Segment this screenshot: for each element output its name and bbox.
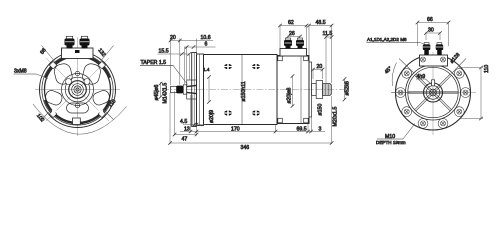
rim arc gap left [52,107,58,113]
rim tab SW [49,110,56,117]
svg-text:47: 47 [182,137,188,143]
ext line 13 left down [190,95,192,133]
body seam line [241,55,243,125]
middle view centerline [162,89,349,91]
left view vent kidney WSW [44,89,64,107]
left view lower dimension arc [33,104,127,134]
drive bracket tab bottom-left [278,118,283,123]
left view terminal bolt right cap [81,36,87,38]
svg-text:86: 86 [39,47,47,55]
ext 30 left [425,32,427,40]
ext 66 right [448,22,450,47]
middle terminal bolt right body [298,45,303,49]
svg-text:DEPTH 19mm: DEPTH 19mm [376,140,406,145]
dimension 110 leader lower-right [103,109,114,120]
dimension 132 leader upper-right [99,46,114,64]
ext line bracket right down [307,124,309,133]
right terminal block [420,55,448,66]
svg-text:3: 3 [319,127,322,133]
drive bracket tab bottom-right [304,118,309,123]
TAPER leader [173,65,188,84]
motor body rectangle [204,55,278,125]
ext line washer up [184,47,186,85]
shaft washer band [183,85,186,94]
bolt hole SW234 [402,107,412,117]
svg-text:346: 346 [241,145,250,151]
svg-text:A1,1D1,A2,2D2 M8: A1,1D1,A2,2D2 M8 [367,37,407,42]
tapered shaft top edge [187,85,197,86]
drive bracket inner line [300,56,302,124]
body screw symbol top-left [224,63,232,70]
left view centerline vertical [77,37,79,136]
ext line shaft end up [331,25,333,84]
ext 66 left [417,22,419,47]
ext line taper start up [186,47,188,85]
right terminal bolt left body [424,50,429,55]
body screw symbol top-right [252,63,260,70]
right terminal bolt right head [436,45,444,51]
svg-text:132: 132 [96,48,106,59]
dim line 6 row [185,46,216,48]
shaft nut (dark) [176,86,183,94]
left view hub circle r12.5 [65,77,90,102]
ext 30 right [439,32,441,40]
dim line 20 left [170,40,214,42]
right view flange inner circle [408,67,458,117]
bracket extra vertical line 2 [199,55,201,126]
rim arc gap right [98,107,104,113]
dim line 66 [418,22,449,24]
dim line 13-170-69.5-3 row [180,131,325,133]
left view vent kidney NNW notch [66,79,72,85]
left view vent kidney ESE [91,89,111,107]
right view outer circle [396,55,471,130]
left view bottom heavy rim arc [45,100,110,123]
rim tab SE [98,110,105,117]
dimension 86 leader upper-left [42,46,57,64]
ext line 47 left down [174,91,176,136]
right terminal bolt right cap [437,43,442,45]
ext line bracket face down [196,125,198,136]
ext line bolt left up [287,36,289,38]
ext line plate up [308,25,310,62]
vertical dim line for ø20ja6 [292,76,294,106]
vertical dim line for ø20j9 [208,77,210,102]
label 3xM8 leader [36,74,48,79]
dim ticks top-left [169,39,196,56]
M10 leader to bolt [403,124,415,140]
left view vent kidney NNW [53,62,74,85]
svg-text:26: 26 [289,31,295,37]
body screw symbol bottom-left [224,110,232,117]
left view rim circle 2 [42,54,113,125]
M10 underline [377,138,403,140]
ext line bracket hub up [188,55,190,81]
svg-text:170: 170 [231,127,240,133]
right view hub circle [424,83,443,102]
ext line bolt right up [299,36,301,38]
right terminal bolt left head [423,45,431,51]
left view terminal bolt left body [67,45,73,49]
threaded shaft M20 [323,84,332,96]
TAPER underline [140,64,173,66]
svg-text:48.5: 48.5 [316,20,326,26]
left view centerline horizontal [35,89,120,91]
right terminal bolt right body [437,50,442,55]
keyway leader [426,79,433,85]
left view vent kidney NNE [81,62,102,85]
left view hub circle r6 [72,84,84,96]
bolt hole W [396,88,406,98]
left view shaft circle [74,86,81,93]
ø20ja6 dim ticks [291,74,295,78]
dimension lines group middle top-right [280,25,332,84]
body screw symbol bottom-right [252,110,260,117]
left view vent kidney NNE notch [84,79,90,85]
drive end bracket [277,56,309,124]
svg-text:69.5: 69.5 [297,127,307,133]
thread hatch lines [324,84,330,96]
front bracket bearing hub [187,80,197,99]
dim line 110 [480,68,482,119]
left view hub circle r16 [62,74,94,106]
rear thin plate [309,62,312,117]
right view spoke NW-SE double line [416,74,452,110]
ext line nut face up [179,39,181,86]
left view diagonal centerline NE-SW [46,58,109,121]
bolt head facet lines [65,42,443,47]
terminal designation underline [367,42,421,44]
dim line 346 [170,142,332,144]
svg-text:6: 6 [205,42,208,48]
svg-text:15.5: 15.5 [159,49,169,55]
front bracket inner plate [197,54,204,126]
drive bracket tab top-right [304,56,309,61]
dim line 20 collar [313,69,323,71]
front bracket outer plate [192,53,197,127]
ext line body right down [275,125,277,133]
bolt hole SE126 [454,107,464,117]
svg-text:20: 20 [317,64,323,70]
dim line 30 [426,32,440,34]
dimension ø128 leader [452,59,467,74]
svg-text:3xM8: 3xM8 [14,69,27,75]
right dims group [418,22,484,119]
left view rim circle 3 [45,57,111,123]
shaft collar [316,81,322,99]
svg-text:ø20ja6: ø20ja6 [287,88,293,104]
svg-text:30: 30 [428,28,434,34]
ø20j9 dim ticks [207,75,211,79]
svg-text:4.5: 4.5 [180,119,187,125]
right view centerline horizontal [392,92,476,94]
svg-text:66: 66 [427,17,433,23]
bolt hole NW306 [402,69,412,79]
dim line 26 [288,36,300,38]
middle terminal bolt left head [284,40,292,46]
right view spoke NE-SW double line [415,74,451,110]
left view terminal bolt right body [82,45,88,49]
left view through-bolt top [75,71,79,75]
middle terminal bolt left cap [285,38,290,40]
ext line plate right down [311,117,313,133]
dimension lines group middle top-left [158,39,216,86]
dim line 47 [175,134,197,136]
dim line 4.5 [183,124,206,126]
dim line 62 [280,25,307,27]
left view outer circle [40,52,116,128]
svg-text:ø150h11: ø150h11 [241,81,247,101]
right terminal bolt left cap [424,43,429,45]
svg-text:10.6: 10.6 [201,35,211,41]
ext line thread start up [325,36,327,83]
bolt hole N342 on rim [421,57,426,62]
ø52k6 dim ticks [343,77,347,81]
left view upper-left heavy rim arc [45,58,63,77]
ext line 346 right down [331,96,333,144]
svg-text:20: 20 [170,35,176,41]
left view diagonal centerline NW-SE [46,58,109,121]
ext 110 top [459,67,483,69]
bracket extra vertical line [193,53,195,126]
left view shaft center circle [76,88,79,91]
dim line 15.5 [158,53,190,55]
right view spoke horizontal double line [408,91,458,93]
ext 110 bottom [459,118,483,120]
rim tab NE [98,61,105,68]
svg-text:1.4: 1.4 [203,67,210,72]
tapered shaft bottom edge [187,92,197,93]
svg-text:M14X1.5: M14X1.5 [163,83,169,104]
dimension oblique ticks all [168,21,483,145]
dimension 102 leader lower-left [42,109,53,120]
dimension lines group middle bottom [170,91,332,144]
45 degree radial line 180 [391,92,410,94]
bolt hole N18 on rim [441,57,446,62]
rim tab NW [49,61,56,68]
45 degree arc [392,63,396,87]
left view terminal bolt left cap [66,36,72,38]
dim line 48.5 [309,25,332,27]
left view bottom vent slot [67,103,89,113]
right view shaft circle [430,89,437,96]
vertical dim line for ø52k6 [344,79,346,100]
svg-text:ø52k6: ø52k6 [345,81,351,96]
45 degree radial line 135 [399,59,414,74]
left view small mark between bolts [75,50,80,53]
dim line 11.5 [326,36,332,38]
ext line bracket face up [196,39,198,56]
middle terminal bolt right head [296,40,304,46]
bottom center foot rect [73,118,81,125]
ext line terminal right up [306,25,308,49]
bolt hole S162 [438,119,448,129]
svg-text:13: 13 [184,127,190,133]
svg-text:110: 110 [484,65,490,73]
left view hub circle r9 [69,81,87,99]
svg-text:ø20j9: ø20j9 [209,110,215,123]
svg-text:11.5: 11.5 [323,31,333,37]
ext line 346 left down [169,93,171,144]
label 3xM8 underline [14,73,37,75]
keyway underline [416,78,426,80]
ext collar right up [322,69,324,80]
svg-text:ø150: ø150 [318,104,324,116]
svg-text:M20x1.5: M20x1.5 [333,106,339,126]
bolt hole S198 [418,119,428,129]
ext collar left up [312,69,314,80]
drive bracket tab top-left [278,56,283,61]
ext line 4.5 down [191,95,193,126]
left view through-bolt bottom [75,103,79,107]
middle terminal bolt right cap [297,38,302,40]
ext line terminal left up [279,25,281,49]
left view terminal bolt right head [80,39,90,46]
right view hub circle 2 [426,86,440,100]
shaft step piece [312,84,317,96]
ext line shaft tip up [170,39,172,86]
right view flange circle [406,65,461,120]
middle terminal bolt left body [286,45,291,49]
svg-text:62: 62 [288,20,294,26]
middle terminal block [280,49,307,57]
bolt hole NE54 [454,69,464,79]
ø45je6 dim line with ticks [160,82,162,97]
left view terminal block [62,48,94,59]
terminal designation leader [420,43,427,46]
left view terminal bolt left head [65,39,75,46]
svg-text:102: 102 [35,113,45,124]
right view keyway [432,80,435,86]
svg-text:45°: 45° [384,66,394,76]
left view upper-right heavy rim arc [92,58,110,77]
shaft stub cylinder [171,86,177,92]
right view centerline vertical [432,52,434,135]
bolt hole E [461,88,471,98]
